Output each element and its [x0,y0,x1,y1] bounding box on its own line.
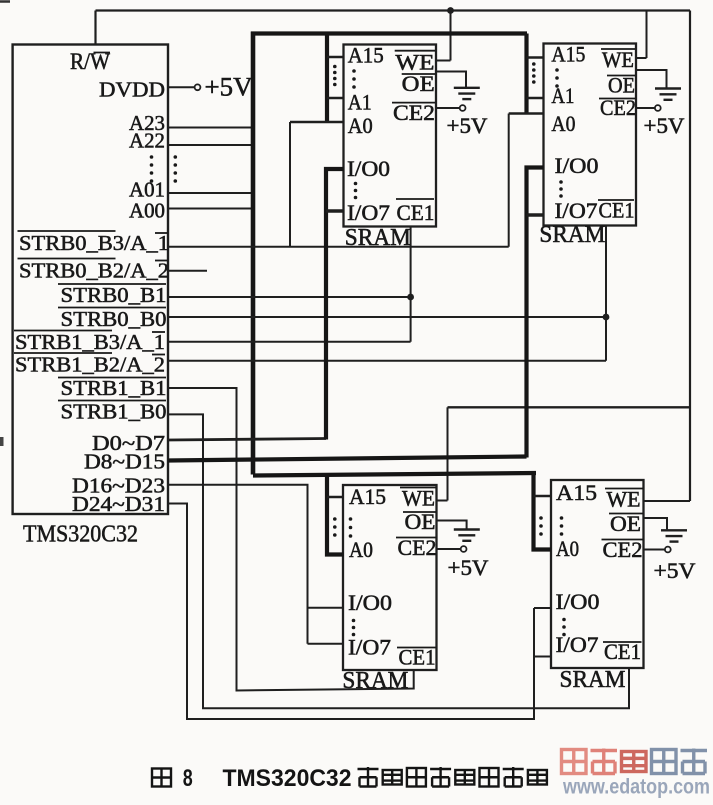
svg-text:STRB0_B1: STRB0_B1 [61,283,167,307]
wire STRB0_B3/A_1 line [168,246,509,248]
bus U3 I/O riser [527,168,544,458]
U2 overline CE2 [392,102,435,104]
svg-text:A15: A15 [348,42,384,67]
ellipsis dots outside TMS [174,155,178,159]
junction STRB0_B0 / U3 CE1 [603,314,610,321]
wire U5 OE to ground [644,518,668,529]
caption char 路 [503,767,524,788]
overline STRB0_B1 [58,283,166,285]
U4 dots I/O [352,619,356,623]
svg-text:A0: A0 [349,537,373,562]
watermark char 易 [562,750,587,774]
wire U4 WE stub [437,500,448,502]
svg-text:STRB1_B0: STRB1_B0 [61,400,167,424]
bus arm to U3 addresses [524,34,528,114]
svg-text:I/O0: I/O0 [555,153,599,178]
SRAM U5 box [551,480,644,668]
wire U2 WE stub [436,60,451,62]
overline over suffix digit of STRB0_B3/A_1 [155,232,168,234]
bus address vertical [251,32,256,475]
wire STRB0_B1 line [168,296,411,298]
SRAM U3 box [544,44,637,226]
wire R/W top line [96,9,691,11]
svg-text:8: 8 [183,765,193,792]
overline STRB1_B3/A_1 [14,330,112,332]
svg-text:I/O7: I/O7 [556,632,599,657]
overline over suffix digit of STRB1_B2/A_2 [152,354,165,356]
bus U2 I/O riser [326,169,344,440]
U3 overline CE2 [599,98,636,100]
junction on R/W line [447,7,454,14]
wire U4 A15 stub [327,496,344,499]
U4 dots below A15 [349,517,353,521]
bus address top [251,31,527,35]
bus address bottom [253,473,536,476]
bus dots left of U4 [333,517,337,521]
U5 dots I/O [562,618,566,622]
wire U5 I/O7 stub [534,656,551,658]
wire drop to U2 WE [450,11,452,61]
svg-text:STRB0_B0: STRB0_B0 [61,307,167,331]
svg-text:D8~D15: D8~D15 [84,450,165,474]
overline STRB1_B1 [58,377,166,379]
svg-text:I/O7: I/O7 [347,200,390,225]
svg-text:CE1: CE1 [397,200,435,225]
U5 overline CE2 [602,539,644,541]
svg-text:CE1: CE1 [599,198,635,223]
U5 overline OE [609,513,643,515]
wire U3 I/O7 stub [527,213,544,216]
wire right drop to U5 WE [689,11,691,502]
svg-text:I/O0: I/O0 [556,589,600,614]
svg-text:A0: A0 [556,536,579,561]
wire U2 A0 line [290,121,344,123]
svg-text:WE: WE [602,47,634,72]
wire A23 [168,127,252,129]
svg-text:+5V: +5V [644,113,685,138]
wire STRB1_B2/A_2 line [168,360,606,362]
wire DVDD stub [168,86,195,88]
terminal circle DVDD [195,84,201,90]
svg-text:A15: A15 [349,484,386,509]
wire A_1 riser left [289,122,291,246]
U4 overline CE2 [396,537,437,539]
wire U2 CE2 stub [436,107,460,109]
U3 overline WE [601,48,635,50]
wire WE3-WE4 tie line [448,406,691,408]
overline over W of R/W [94,52,111,54]
terminal circle U4 CE2 [461,546,467,552]
wire U3 A0 line [509,112,544,114]
terminal circle U5 CE2 [665,547,671,553]
svg-text:STRB0_B3/A_1: STRB0_B3/A_1 [19,231,169,255]
bus dots left of U2 [333,65,337,69]
svg-text:TMS320C32: TMS320C32 [223,765,352,792]
watermark char 迪 [591,749,618,775]
svg-text:STRB1_B3/A_1: STRB1_B3/A_1 [15,330,165,354]
caption char 口 [455,770,474,785]
wire U4 I/O0 stub [308,607,344,609]
U4 overline CE1 [397,647,436,649]
svg-text:+5V: +5V [447,113,488,138]
bus dots left of U3 [532,62,536,66]
overline STRB0_B2/A_2 [18,258,116,260]
svg-text:CE2: CE2 [398,535,437,560]
svg-text:A0: A0 [348,113,373,138]
svg-text:DVDD: DVDD [99,78,165,102]
wire A22 [168,144,252,146]
svg-text:I/O0: I/O0 [347,156,390,181]
wire U3 WE stub [636,57,647,59]
U5 overline WE [605,488,643,490]
terminal circle U3 CE2 [655,105,661,111]
caption char 图 [152,769,171,787]
caption char 图 [528,770,547,785]
U2 dots I/O [354,182,358,186]
wire STRB0_B2/A_2 stub [168,270,207,272]
svg-text:A1: A1 [551,83,574,108]
svg-text:CE2: CE2 [603,537,643,562]
svg-text:+5V: +5V [448,555,489,580]
junction STRB0_B1 / U2 CE1 [407,294,414,301]
bus arm to U4 addresses [327,475,344,555]
scan artifact top-left [0,0,10,3]
svg-text:+5V: +5V [654,558,696,583]
wire U5 I/O0 stub [534,607,551,609]
wire U2 I/O7 stub [326,209,344,212]
bus arm to U2 addresses [325,34,329,123]
svg-text:D24~D31: D24~D31 [72,492,165,516]
caption char 接 [430,767,451,788]
U2 overline OE [402,73,436,75]
svg-text:A0: A0 [551,111,575,136]
U2 dots below A15 [352,69,356,73]
wire U3 CE1 riser [605,226,607,361]
wire U4 OE to ground [437,521,467,529]
U3 overline CE1 [598,199,634,201]
wire U5 WE stub [644,500,691,502]
wire U4 I/O7 stub [308,643,344,645]
ellipsis dots inside TMS [150,155,154,159]
U4 overline OE [403,511,436,513]
overline STRB1_B0 [58,400,166,402]
overline STRB0_B0 [58,307,166,309]
wire STRB0_B0 line [168,316,606,318]
ground U5 [661,529,687,531]
wire U3 CE2 stub [636,107,655,109]
wire A01 [168,192,252,194]
overline STRB1_B2/A_2 [14,352,112,354]
bus arm to U5 addresses [534,475,552,550]
U2 overline WE [395,50,436,52]
SRAM U2 box [344,45,437,227]
svg-text:OE: OE [610,511,641,536]
wire STRB1_B3/A_1 line [168,341,411,343]
svg-text:A15: A15 [556,480,597,505]
caption char 电 [480,768,499,787]
wire U5 CE2 stub [644,549,665,551]
wire D16~D23 to U4 I/O riser [168,485,308,644]
overline over suffix digit of STRB0_B2/A_2 [155,260,168,262]
svg-text:A1: A1 [348,89,372,114]
svg-text:TMS320C32: TMS320C32 [23,522,138,548]
wire U3 A1 stub [527,97,544,99]
bus dots left of U5 [539,516,543,520]
U3 dots I/O [559,180,563,184]
caption char 储 [383,770,402,785]
U3 overline OE [607,75,635,77]
TMS320C32 U1 box [13,45,168,515]
ground U4 [454,528,480,530]
svg-text:I/O0: I/O0 [348,590,392,615]
wire drop to U3 WE [646,11,648,59]
ground U2 [454,87,480,89]
svg-text:www.edatop.com: www.edatop.com [562,776,710,799]
wire U2 CE1 riser [410,227,412,342]
wire A00 [168,208,252,210]
watermark char 拓 [622,752,647,772]
scan artifact left edge [0,437,4,446]
svg-text:I/O7: I/O7 [348,635,391,660]
svg-text:STRB0_B2/A_2: STRB0_B2/A_2 [19,259,169,283]
bus D8~D15 line [168,457,527,461]
svg-text:A22: A22 [129,129,165,153]
svg-text:STRB1_B2/A_2: STRB1_B2/A_2 [15,353,165,377]
wire STRB1_B0 to U5 CE1 [168,414,629,708]
U5 dots below A15 [560,516,564,520]
U3 dots below A15 [555,68,559,72]
wire STRB1_B1 to U4 CE1 [168,388,414,691]
wire U2 A15 stub [327,56,344,58]
caption char 存 [358,767,379,788]
svg-text:STRB1_B1: STRB1_B1 [61,376,167,400]
wire A_1 riser right [508,114,510,247]
U5 overline CE1 [603,641,642,643]
svg-text:CE2: CE2 [393,100,435,125]
overline STRB0_B3/A_1 [18,230,116,232]
wire U5 A15 stub [534,495,552,498]
wire U4 WE riser [447,407,449,500]
svg-text:A15: A15 [551,41,585,66]
terminal circle U2 CE2 [460,105,466,111]
wire R/W riser [94,11,96,45]
svg-text:WE: WE [402,486,435,511]
wire D0~D7 line [168,439,326,441]
svg-text:+5V: +5V [205,73,253,102]
SRAM U4 box [343,485,437,670]
wire U3 A15 stub [527,56,544,58]
overline over suffix digit of STRB1_B3/A_1 [152,331,165,333]
svg-text:SRAM: SRAM [560,667,626,693]
wire U3 OE to ground [636,70,667,88]
svg-text:A00: A00 [129,199,165,223]
caption char 器 [407,768,426,787]
ground U3 [655,87,681,89]
watermark char 训 [681,749,708,775]
wire U2 OE to ground [436,72,466,88]
svg-text:WE: WE [607,487,641,512]
watermark char 培 [652,750,677,774]
wire U4 CE2 stub [437,548,461,550]
wire U2 A1 stub [327,97,344,99]
U4 overline WE [400,487,436,489]
wire D24~D31 to U5 I/O riser [168,504,534,720]
svg-text:I/O7: I/O7 [555,198,598,223]
svg-text:SRAM: SRAM [539,222,605,248]
U2 overline CE1 [396,198,434,200]
